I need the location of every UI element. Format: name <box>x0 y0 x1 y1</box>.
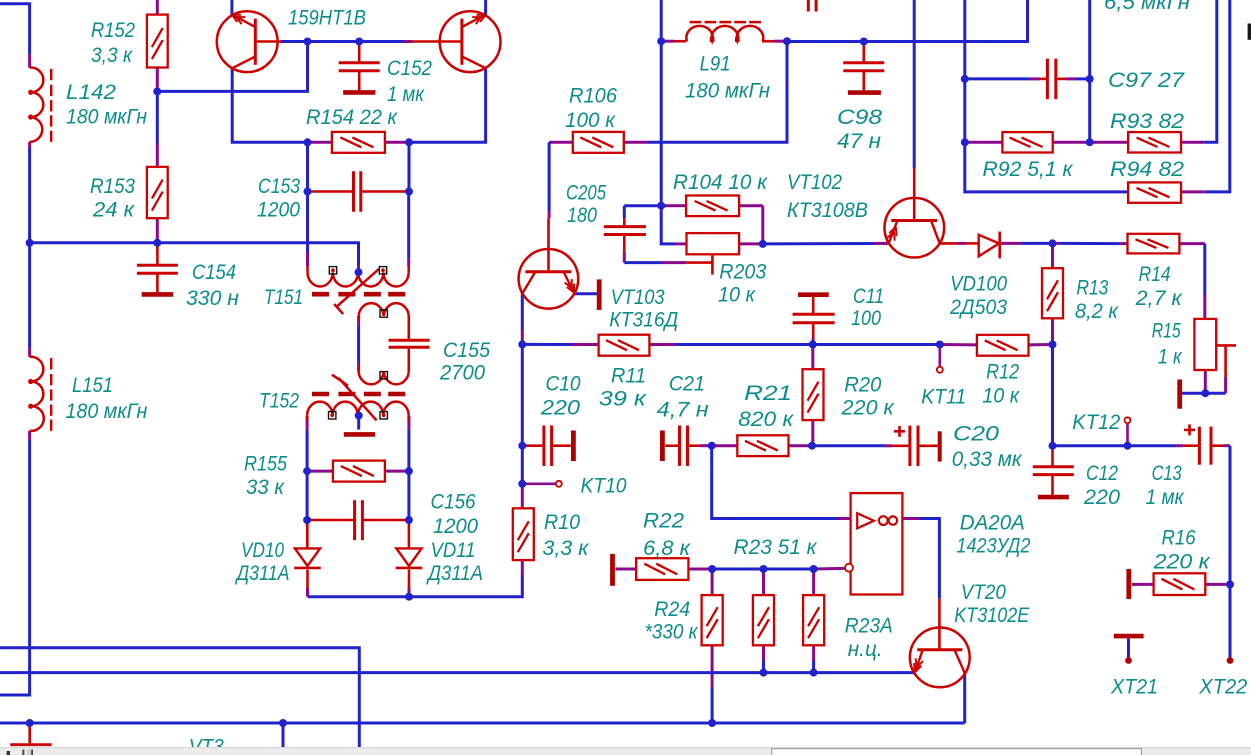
svg-text:L142: L142 <box>66 81 116 104</box>
wire — C12 chain <box>1051 446 1054 495</box>
ground — R15 chassis bar <box>1177 380 1182 409</box>
label 220 <box>540 397 580 420</box>
capacitor C20 (polarized) <box>894 426 940 467</box>
window chrome — bottom grey strip <box>0 747 1251 755</box>
wire <box>1051 345 1054 446</box>
junction <box>405 467 413 475</box>
wire <box>361 190 409 193</box>
wire <box>1053 444 1184 447</box>
label 4,7 н <box>657 399 709 422</box>
wire — C20 lead <box>812 444 938 447</box>
wire <box>1090 141 1128 144</box>
wire — bus <box>0 648 359 748</box>
svg-text:C97 27: C97 27 <box>1108 69 1185 92</box>
svg-text:3,3 к: 3,3 к <box>91 44 133 67</box>
junction <box>518 480 526 488</box>
junction <box>1049 239 1057 247</box>
junction <box>153 87 161 95</box>
resistor R94 <box>1128 182 1181 202</box>
capacitor C98 <box>843 63 884 93</box>
wire <box>811 345 814 370</box>
wire — R15 tap <box>1216 345 1236 393</box>
svg-text:C98: C98 <box>837 106 882 129</box>
wire <box>156 91 159 166</box>
svg-text:VT102: VT102 <box>787 171 842 194</box>
wire <box>963 0 966 142</box>
label C20 <box>953 423 999 446</box>
svg-text:C152: C152 <box>387 57 432 80</box>
label 820 к <box>738 408 794 431</box>
label 33 к <box>246 476 285 499</box>
wire <box>1179 244 1204 319</box>
label R21 <box>744 382 792 405</box>
wire <box>965 77 1048 80</box>
ground — R16 chassis bar <box>1126 569 1131 599</box>
wire <box>282 723 285 748</box>
svg-text:VT103: VT103 <box>611 286 665 309</box>
wire — R203 tap lead <box>711 254 714 274</box>
svg-text:R153: R153 <box>90 175 135 198</box>
wire <box>308 40 360 43</box>
wire <box>624 42 787 143</box>
label C21 <box>669 373 705 396</box>
svg-text:2700: 2700 <box>439 362 485 385</box>
wire <box>408 520 411 548</box>
label L142 <box>66 81 116 104</box>
junction <box>1226 580 1234 588</box>
wire <box>814 567 846 571</box>
junction <box>708 442 716 450</box>
label VD11 <box>431 539 476 562</box>
wire <box>1051 243 1054 268</box>
svg-text:T151: T151 <box>264 286 303 309</box>
label *330 к <box>645 621 699 644</box>
junction <box>708 719 716 727</box>
transformer T151 <box>308 266 409 321</box>
svg-text:180 мкГн: 180 мкГн <box>65 400 147 423</box>
core adjust square T151-2 <box>379 267 386 274</box>
svg-text:R16: R16 <box>1162 527 1196 550</box>
svg-text:1 мк: 1 мк <box>1146 486 1185 509</box>
svg-text:R106: R106 <box>569 85 617 108</box>
inductor L142 <box>28 68 51 142</box>
svg-text:R155: R155 <box>244 453 287 476</box>
svg-text:2Д503: 2Д503 <box>949 296 1007 319</box>
svg-text:R11: R11 <box>611 365 646 388</box>
svg-text:220 к: 220 к <box>1152 551 1210 574</box>
wire — XT21 stem <box>1127 638 1130 660</box>
svg-text:1200: 1200 <box>257 199 300 222</box>
capacitor C12 <box>1033 467 1074 497</box>
label 39 к <box>599 388 647 411</box>
capacitor C152 <box>339 63 380 93</box>
svg-text:VD10: VD10 <box>241 539 284 562</box>
resistor R12 <box>977 335 1029 356</box>
label R22 <box>643 510 684 533</box>
svg-text:C11: C11 <box>853 285 884 308</box>
wire <box>408 570 411 597</box>
label R152 <box>91 19 135 42</box>
test point KT10 <box>556 481 562 487</box>
capacitor C97 <box>1047 59 1055 100</box>
label L151 <box>72 374 113 397</box>
label 180 мкГн <box>66 106 147 129</box>
svg-text:39 к: 39 к <box>599 388 647 411</box>
junction <box>809 341 817 349</box>
capacitor C154 <box>137 243 178 295</box>
inductor L151 <box>28 357 51 431</box>
svg-text:C13: C13 <box>1152 462 1182 485</box>
svg-text:VD11: VD11 <box>431 539 476 562</box>
junction <box>860 38 868 46</box>
label R104 10 к <box>673 171 768 194</box>
svg-text:180: 180 <box>567 204 597 227</box>
resistor R152 <box>147 15 168 68</box>
wire <box>307 519 409 522</box>
label VT103 <box>611 286 665 309</box>
svg-text:180 мкГн: 180 мкГн <box>685 80 770 103</box>
wire — C11 stem <box>811 296 814 344</box>
wire <box>407 471 410 520</box>
svg-text:R22: R22 <box>643 510 684 533</box>
wire <box>232 68 307 143</box>
wire <box>484 0 487 15</box>
svg-text:47 н: 47 н <box>837 130 881 153</box>
wire <box>521 293 524 345</box>
wire <box>712 444 738 447</box>
junction <box>355 412 363 420</box>
wire <box>521 484 524 509</box>
svg-text:R21: R21 <box>744 382 792 405</box>
label 2,7 к <box>1135 287 1183 310</box>
svg-text:C154: C154 <box>192 261 236 284</box>
junction <box>279 719 287 727</box>
label VD100 <box>950 273 1007 296</box>
resistor R10 <box>513 508 534 560</box>
junction <box>1049 341 1057 349</box>
junction <box>1124 442 1132 450</box>
wire <box>359 40 461 43</box>
label 1423УД2 <box>956 535 1030 558</box>
label 1 мк <box>1146 486 1185 509</box>
wire <box>862 71 865 91</box>
resistor R23 (a) <box>753 595 774 645</box>
wire <box>408 142 411 191</box>
window chrome — black mark top right <box>1248 24 1251 40</box>
label 47 н <box>837 130 881 153</box>
label KT12 <box>1072 411 1120 434</box>
label 10 к <box>718 284 756 307</box>
label 1200 <box>433 515 478 538</box>
junction <box>518 442 526 450</box>
svg-text:6,8 к: 6,8 к <box>643 537 691 560</box>
wire <box>308 190 354 193</box>
label KT10 <box>581 475 627 498</box>
resistor R104 <box>686 196 739 217</box>
capacitor C21 <box>662 425 687 466</box>
resistor R22 <box>636 558 688 580</box>
wire <box>1181 0 1230 192</box>
svg-text:VT20: VT20 <box>961 581 1006 604</box>
ground — bottom left earth symbol <box>10 743 51 746</box>
wire <box>409 68 486 142</box>
wire <box>661 206 686 244</box>
wire <box>306 520 309 548</box>
wire <box>940 242 979 245</box>
svg-text:КТ3108В: КТ3108В <box>787 199 868 222</box>
resistor R106 <box>573 132 624 153</box>
junction <box>760 669 768 677</box>
junction <box>303 516 311 524</box>
wire <box>28 142 31 243</box>
wire <box>308 141 332 144</box>
wire <box>306 416 309 471</box>
wire — DA20A output <box>902 519 939 650</box>
wire <box>28 243 31 357</box>
junction <box>760 565 768 573</box>
wire <box>963 673 966 723</box>
wire <box>156 0 159 15</box>
label 1 мк <box>387 83 425 106</box>
junction <box>936 341 944 349</box>
junction <box>657 37 665 45</box>
wire <box>1181 0 1217 142</box>
resistor R24 <box>702 595 723 645</box>
label R24 <box>654 598 690 621</box>
wire — KT10 stub <box>522 446 555 484</box>
svg-text:3,3 к: 3,3 к <box>542 537 589 560</box>
resistor R13 <box>1042 268 1063 318</box>
wire <box>1056 78 1090 81</box>
transistor VT102 <box>885 198 945 258</box>
resistor R20 <box>803 369 824 420</box>
transistor VT151 (159НТ1В) <box>217 11 278 72</box>
label 0,33 мк <box>952 448 1023 471</box>
junction <box>708 565 716 573</box>
terminal XT21 <box>1125 657 1132 664</box>
wire <box>688 568 712 571</box>
wire — C21 lead <box>665 444 712 447</box>
ground — chassis dot XT drop <box>28 723 31 743</box>
svg-text:L91: L91 <box>700 53 731 76</box>
wire <box>30 243 359 272</box>
label R20 <box>844 374 881 397</box>
junction <box>808 442 816 450</box>
label 220 к <box>1152 551 1210 574</box>
diode VD11 <box>396 548 423 568</box>
resistor R92 <box>1002 132 1052 152</box>
label КТ316Д <box>609 309 678 332</box>
wire <box>306 570 309 597</box>
svg-text:159НТ1В: 159НТ1В <box>288 7 366 30</box>
label R11 <box>611 365 646 388</box>
wire <box>811 420 814 446</box>
junction <box>518 340 526 348</box>
wire <box>409 560 522 597</box>
label 24 к <box>92 199 135 222</box>
label T151 <box>264 286 303 309</box>
label R12 <box>986 361 1019 384</box>
wire <box>308 595 410 598</box>
inductor L91 <box>686 22 763 42</box>
label 8,2 к <box>1075 300 1119 323</box>
capacitor C205 <box>604 227 646 235</box>
svg-text:24 к: 24 к <box>92 199 135 222</box>
svg-text:R15: R15 <box>1152 320 1181 343</box>
label KT3102E <box>954 604 1030 627</box>
junction <box>405 188 413 196</box>
svg-text:L151: L151 <box>72 374 113 397</box>
svg-text:100: 100 <box>851 307 881 330</box>
label R92 5,1 к <box>983 158 1074 181</box>
svg-text:R20: R20 <box>844 374 881 397</box>
svg-text:R12: R12 <box>986 361 1019 384</box>
svg-text:220 к: 220 к <box>841 397 895 420</box>
label C13 <box>1152 462 1182 485</box>
resistor R21 <box>737 435 788 456</box>
svg-text:10 к: 10 к <box>718 284 756 307</box>
svg-text:KT11: KT11 <box>921 386 966 409</box>
svg-text:R94 82: R94 82 <box>1110 158 1184 181</box>
label Д311А <box>235 562 290 585</box>
label R13 <box>1076 277 1108 300</box>
label R155 <box>244 453 287 476</box>
wire <box>762 569 765 595</box>
wire <box>711 569 714 595</box>
junction <box>961 75 969 83</box>
label 3,3 к <box>542 537 589 560</box>
label R154 22 к <box>306 106 398 129</box>
wire <box>812 645 815 672</box>
wire <box>407 192 410 267</box>
label 2Д503 <box>949 296 1007 319</box>
wire — C205 bottom to R203 tap <box>624 235 713 263</box>
wire <box>157 42 307 92</box>
label R23 51 к <box>734 536 818 559</box>
label C11 <box>853 285 884 308</box>
svg-text:КТ316Д: КТ316Д <box>609 309 678 332</box>
wire <box>1053 141 1090 144</box>
label R94 82 <box>1110 158 1184 181</box>
core adjust square T152-1 <box>380 372 387 379</box>
label C155 <box>443 339 490 362</box>
svg-text:R93 82: R93 82 <box>1110 110 1184 133</box>
wire <box>712 568 814 571</box>
label 1 к <box>1158 346 1183 369</box>
label R93 82 <box>1110 110 1184 133</box>
ground — XT21 chassis bar <box>1114 634 1144 639</box>
svg-text:ХТ21: ХТ21 <box>1110 676 1158 699</box>
wire — KT12 stub <box>1126 423 1129 446</box>
label 180 мкГн <box>685 80 770 103</box>
junction <box>304 188 312 196</box>
svg-text:C156: C156 <box>431 491 476 514</box>
transformer T152 <box>307 366 409 421</box>
wire <box>230 0 233 15</box>
svg-text:100 к: 100 к <box>565 109 616 132</box>
wire <box>1182 392 1226 395</box>
resistor R93 <box>1128 132 1181 152</box>
wire — L91 leads <box>661 40 787 43</box>
wire <box>547 142 551 271</box>
label VT3 <box>189 736 224 755</box>
wire <box>1029 343 1053 346</box>
wire — KT11 stub <box>938 345 941 367</box>
junction <box>1201 389 1209 397</box>
junction <box>304 138 312 146</box>
label C152 <box>387 57 432 80</box>
resistor R153 <box>147 167 168 218</box>
wire <box>649 343 812 346</box>
core adjust square T151-3 <box>380 310 387 317</box>
label R153 <box>90 175 135 198</box>
svg-text:C20: C20 <box>953 423 999 446</box>
label 180 <box>567 204 597 227</box>
label Д311А <box>426 562 483 585</box>
label R106 <box>569 85 617 108</box>
svg-text:C21: C21 <box>669 373 705 396</box>
label R16 <box>1162 527 1196 550</box>
label 220 к <box>841 397 895 420</box>
wire <box>1051 318 1054 344</box>
wire <box>862 42 865 63</box>
wire <box>385 141 409 144</box>
wire <box>739 242 763 245</box>
junction <box>355 38 363 46</box>
resistor R15 <box>1194 319 1216 370</box>
wire — R16 leads <box>1132 583 1230 586</box>
ground — R22 chassis bar <box>610 554 615 586</box>
op-amp DA20A <box>851 493 903 594</box>
junction <box>153 239 161 247</box>
capacitor C155 <box>389 340 430 347</box>
svg-text:*330 к: *330 к <box>645 621 699 644</box>
wire <box>521 344 524 445</box>
svg-text:R92 5,1 к: R92 5,1 к <box>983 158 1074 181</box>
label ХТ22 <box>1198 676 1247 699</box>
wire <box>549 141 573 144</box>
wire — bus <box>0 671 915 674</box>
wire <box>156 68 159 92</box>
svg-text:820 к: 820 к <box>738 408 794 431</box>
trimmer resistor R203 <box>687 233 740 254</box>
label 100 <box>851 307 881 330</box>
transistor VT152 (159НТ1В) <box>440 11 501 72</box>
wire — VT103 emitter to chassis <box>574 292 597 295</box>
junction <box>961 138 969 146</box>
label КТ3108В <box>787 199 868 222</box>
wire <box>1053 242 1128 245</box>
svg-text:R154 22 к: R154 22 к <box>306 106 398 129</box>
junction <box>405 138 413 146</box>
wire <box>1229 584 1232 660</box>
wire <box>762 645 765 672</box>
label C205 <box>566 182 606 205</box>
label R10 <box>544 511 580 534</box>
label R14 <box>1139 263 1171 286</box>
wire <box>1204 370 1207 393</box>
junction <box>810 565 818 573</box>
junction <box>783 37 791 45</box>
label C154 <box>192 261 236 284</box>
svg-text:C155: C155 <box>443 339 490 362</box>
svg-text:C12: C12 <box>1086 462 1118 485</box>
junction <box>303 467 311 475</box>
wire <box>156 218 159 243</box>
wire — C205 net <box>624 206 661 227</box>
wire — C155 chain <box>407 316 410 371</box>
svg-text:ХТ22: ХТ22 <box>1198 676 1247 699</box>
